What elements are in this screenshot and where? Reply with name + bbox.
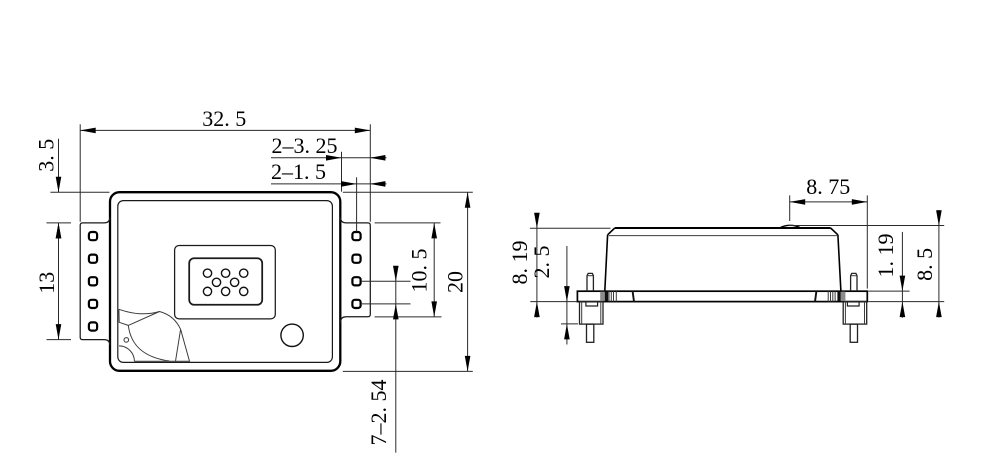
left tab hole 3 bbox=[89, 277, 97, 285]
svg-text:7–2. 54: 7–2. 54 bbox=[366, 380, 391, 446]
dim 1.19 arrow bottom bbox=[900, 302, 906, 318]
dim 8.19 extension line at top face bbox=[530, 227, 611, 229]
right crush line 2 bbox=[830, 291, 832, 301]
right standoff inner wall right bbox=[864, 302, 866, 325]
dim 3.5 lower stub bbox=[58, 223, 60, 244]
dim 1.19 arrow top bbox=[900, 276, 906, 292]
right tab hole 4 bbox=[352, 300, 360, 308]
dim 2-1.5 dimension line bbox=[271, 183, 387, 185]
right tab hole 1 bbox=[352, 232, 360, 240]
right tab hole 2 bbox=[352, 255, 360, 263]
right pin lower shaft bbox=[850, 324, 857, 342]
left weld tick bbox=[633, 291, 634, 301]
dim 3.5 dimension line upper bbox=[58, 139, 60, 193]
left standoff block bbox=[580, 302, 604, 325]
sensor window outer frame bbox=[175, 246, 276, 319]
fan logo shoulder arc bbox=[160, 312, 181, 330]
dim 7-2.54 leader line bbox=[395, 267, 397, 453]
right weld tick bbox=[815, 291, 816, 301]
dim 32.5 extension line right bbox=[369, 124, 371, 222]
left crush line 3 bbox=[613, 291, 615, 301]
svg-text:8. 75: 8. 75 bbox=[806, 174, 850, 199]
dim 20 arrow bottom bbox=[465, 356, 471, 372]
round indicator (LED hole) bbox=[281, 324, 303, 346]
left crush line 1 bbox=[608, 291, 610, 301]
fan logo pivot hole bbox=[124, 338, 129, 343]
fan logo inner sweep arc bbox=[128, 325, 169, 361]
right pin upper shaft bbox=[851, 273, 857, 291]
right standoff inner wall left bbox=[844, 302, 846, 325]
left tab hole 2 bbox=[89, 255, 97, 263]
dim 2-3.25 extension line bbox=[341, 152, 343, 192]
dim 7-2.54 extension line lower hole bbox=[361, 303, 411, 305]
dim 20 arrow top bbox=[465, 192, 471, 208]
dim 8.5 arrow top bbox=[936, 210, 942, 226]
dim 8.75 arrow left bbox=[790, 199, 806, 205]
svg-text:10. 5: 10. 5 bbox=[407, 249, 432, 293]
right mounting tab bbox=[340, 217, 370, 322]
dim 2-1.5 extension line bbox=[356, 177, 358, 231]
svg-text:2. 5: 2. 5 bbox=[529, 246, 554, 279]
right standoff notch bbox=[847, 302, 859, 306]
fan logo blade triangle bbox=[176, 329, 190, 361]
left tab hole 5 bbox=[89, 322, 97, 330]
dim 8.75 extension line right bbox=[866, 195, 868, 288]
svg-text:2–1. 5: 2–1. 5 bbox=[271, 159, 326, 184]
side view right edge bbox=[838, 235, 841, 291]
sensor mesh hole 7 bbox=[221, 287, 229, 295]
left pin cap line bbox=[587, 275, 593, 277]
dim 8.19 arrow top bbox=[534, 213, 540, 229]
dim 8.75 dimension line bbox=[790, 201, 868, 203]
dim 7-2.54 arrow lower bbox=[393, 304, 399, 320]
module body outer outline (top view) bbox=[110, 192, 340, 371]
dim 32.5 dimension line bbox=[80, 129, 370, 131]
svg-text:2–3. 25: 2–3. 25 bbox=[272, 133, 338, 158]
dim 2.5 dimension line bbox=[566, 246, 568, 345]
dome top tangent extension line bbox=[789, 225, 945, 227]
svg-text:8. 5: 8. 5 bbox=[912, 248, 937, 281]
sensor mesh hole 5 bbox=[230, 278, 238, 286]
dim 10.5 dimension line bbox=[433, 223, 435, 317]
fan logo outer top edge bbox=[119, 309, 160, 313]
right crush line 3 bbox=[832, 291, 834, 301]
left tab hole 4 bbox=[89, 300, 97, 308]
dim 2-1.5 arrow right bbox=[370, 181, 386, 187]
right crush zone dark band bbox=[837, 292, 840, 301]
dim 20 extension line bottom bbox=[343, 370, 473, 372]
dim 10.5 arrow bottom bbox=[431, 301, 437, 317]
sensor mesh hole 4 bbox=[212, 278, 220, 286]
dim 2.5 arrow bottom bbox=[564, 324, 570, 340]
dim 3.5 extension line at body top bbox=[50, 191, 109, 193]
dim 8.5 dimension line bbox=[938, 210, 940, 318]
dim 3.5 arrow upper bbox=[56, 177, 62, 193]
sensor mesh hole 6 bbox=[203, 287, 211, 295]
dim 3.5/13 extension tick at tab top bbox=[47, 222, 72, 224]
side view left chamfer bbox=[608, 228, 615, 235]
svg-text:13: 13 bbox=[34, 272, 59, 294]
dim 8.19 arrow bottom bbox=[534, 302, 540, 318]
dim 10.5 extension line top bbox=[375, 222, 441, 224]
sensor mesh hole 2 bbox=[221, 269, 229, 277]
dim 20 extension line top right bbox=[343, 191, 473, 193]
dim 7-2.54 extension line upper hole bbox=[361, 280, 411, 282]
dim 8.19 dimension line bbox=[536, 213, 538, 318]
left pin upper shaft bbox=[587, 273, 593, 291]
dim 1.19 dimension line bbox=[901, 232, 903, 318]
left standoff notch bbox=[586, 302, 598, 306]
dim 8.5 arrow bottom bbox=[936, 302, 942, 318]
dim 2.5 extension tick bottom bbox=[561, 323, 578, 325]
dim 32.5 extension line left bbox=[79, 124, 81, 222]
dim 2-3.25 arrow right bbox=[370, 155, 386, 161]
plate bottom extension line right bbox=[868, 301, 944, 303]
sensor mesh hole 1 bbox=[203, 269, 211, 277]
dim 2-3.25 arrow left bbox=[326, 155, 342, 161]
dim 13 arrow bottom bbox=[56, 324, 62, 340]
right pin cap line bbox=[851, 275, 857, 277]
plate top extension line right bbox=[868, 290, 909, 292]
left crush zone dark band bbox=[605, 292, 608, 301]
left crush line 4 bbox=[615, 291, 617, 301]
left crush line 2 bbox=[610, 291, 612, 301]
dim 13 extension tick at tab bottom bbox=[47, 339, 72, 341]
right crush line 1 bbox=[827, 291, 829, 301]
fan logo rib diagonal bbox=[128, 312, 159, 326]
dim 10.5 extension line bottom bbox=[375, 316, 442, 318]
dim 7-2.54 arrow upper bbox=[393, 266, 399, 282]
left tab hole 1 bbox=[89, 232, 97, 240]
left standoff inner wall left bbox=[581, 302, 583, 325]
side view lid inner line bbox=[609, 235, 837, 237]
side view top dome bump bbox=[779, 225, 801, 228]
dim 2-3.25 dimension line bbox=[271, 157, 387, 159]
dim 8.75 arrow right bbox=[852, 199, 868, 205]
side view base plate bbox=[577, 291, 867, 301]
sensor mesh hole 3 bbox=[240, 269, 248, 277]
dim 2.5 arrow top bbox=[564, 286, 570, 302]
sensor window inner frame bbox=[189, 258, 262, 305]
fan logo hub arc bbox=[119, 346, 134, 361]
svg-text:1. 19: 1. 19 bbox=[873, 234, 898, 278]
right standoff block bbox=[843, 302, 867, 325]
dim 20 dimension line bbox=[467, 192, 469, 371]
side view right chamfer bbox=[831, 228, 838, 235]
dim 10.5 arrow top bbox=[431, 223, 437, 239]
right crush zone gray band bbox=[841, 292, 846, 301]
dim 2.5 extension line top bbox=[530, 301, 577, 303]
dim 32.5 arrow right bbox=[355, 128, 371, 134]
sensor mesh hole 8 bbox=[240, 287, 248, 295]
fan logo left edge and rib corner bbox=[119, 309, 128, 325]
dim 2-1.5 arrow left bbox=[341, 181, 357, 187]
module body inner outline bbox=[118, 201, 333, 363]
left mounting tab bbox=[80, 217, 110, 345]
dim 3.5 arrow lower bbox=[56, 223, 62, 239]
dim 32.5 arrow left bbox=[80, 128, 96, 134]
svg-text:32. 5: 32. 5 bbox=[202, 106, 246, 131]
right crush line 4 bbox=[834, 291, 836, 301]
svg-text:3. 5: 3. 5 bbox=[34, 139, 59, 172]
fan logo bottom edge bbox=[134, 360, 175, 362]
dim 8.75 extension line left bbox=[789, 195, 791, 221]
svg-text:20: 20 bbox=[443, 271, 468, 293]
right tab hole 3 bbox=[352, 277, 360, 285]
left standoff inner wall right bbox=[600, 302, 602, 325]
left pin lower shaft bbox=[587, 324, 594, 342]
dim 13 arrow top bbox=[56, 223, 62, 239]
side view left edge bbox=[605, 235, 608, 291]
dim 13 dimension line bbox=[58, 223, 60, 340]
side view top face bbox=[615, 227, 831, 229]
left crush zone gray band bbox=[600, 292, 605, 301]
